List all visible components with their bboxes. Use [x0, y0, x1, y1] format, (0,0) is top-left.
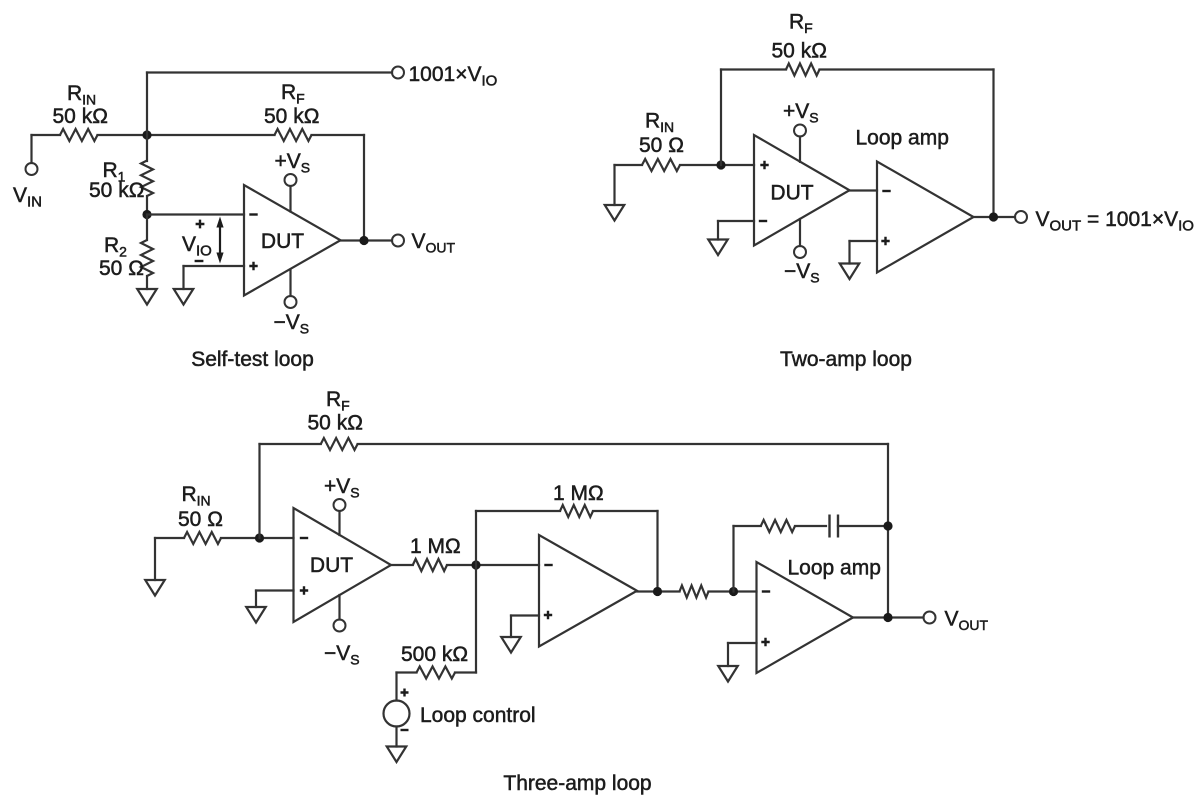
wire top rail to 1001xVIO terminal [147, 71, 392, 73]
resistor 1 MOhm feedback amp2 [560, 505, 593, 517]
svg-text:Three-amp loop: Three-amp loop [503, 772, 651, 795]
resistor R2 50 Ohm [141, 240, 153, 276]
svg-text:Two-amp loop: Two-amp loop [780, 348, 912, 371]
wire amp3 noninverting input [728, 642, 757, 644]
svg-text:DUT: DUT [261, 230, 304, 253]
wire RIN to RF through node [98, 134, 275, 136]
wire amp3 output [853, 616, 924, 618]
ground input three-amp [145, 580, 165, 596]
svg-text:DUT: DUT [310, 554, 353, 577]
wire node to R1 [146, 135, 148, 161]
resistor compensation amp3 [761, 520, 795, 532]
wire +VS stub [289, 186, 291, 212]
junction node amp2 output [653, 587, 662, 596]
wire to RIN three-amp [155, 537, 184, 539]
resistor R1 50 kOhm [141, 161, 153, 197]
wire source bottom lead [395, 727, 397, 747]
terminal -VS [285, 296, 297, 308]
wire capacitor to output node [838, 525, 888, 527]
terminal VIN [26, 163, 38, 175]
wire inverting to ground two-amp [717, 221, 719, 240]
wire resistor to capacitor [795, 525, 826, 527]
wire noninverting to ground three-amp [255, 591, 257, 608]
terminal VOUT two-amp [1015, 211, 1027, 223]
DUT noninverting sign three-amp [300, 586, 308, 594]
resistor RIN 50 Ohm three-amp [184, 532, 221, 544]
wire VIN vertical [30, 135, 32, 163]
wire DUT output three-amp [391, 564, 413, 566]
wire DUT noninverting input [184, 265, 245, 267]
svg-text:Self-test loop: Self-test loop [191, 348, 314, 371]
terminal +VS two-amp [794, 125, 806, 137]
wire ground to RIN three-amp [154, 538, 156, 580]
op-amp DUT self-test [244, 185, 341, 296]
DUT inverting sign two-amp [759, 220, 767, 222]
wire feedback left leg two-amp [720, 70, 722, 166]
amp2 inverting sign [544, 564, 552, 566]
junction node inverting input [142, 210, 151, 219]
wire R2 to ground [146, 276, 148, 289]
wire R1 to node [146, 196, 148, 215]
terminal VOUT three-amp [924, 612, 936, 624]
wire RIN to DUT inverting three-amp [221, 537, 294, 539]
minus sign VIO [195, 260, 204, 262]
wire amp2 input vertical [475, 511, 477, 673]
wire feedback top right two-amp [820, 68, 994, 70]
svg-text:50 kΩ: 50 kΩ [264, 105, 319, 128]
ground noninverting input [174, 289, 194, 305]
amp2 noninverting sign [544, 611, 552, 619]
resistor RF 50 kOhm three-amp [321, 438, 358, 450]
wire feedback left leg three-amp [258, 444, 260, 538]
op-amp A2 three-amp [539, 535, 637, 647]
wire feedback right leg two-amp [992, 70, 994, 218]
minus sign loop control [401, 729, 409, 731]
wire RF output leg vertical [363, 135, 365, 241]
op-amp DUT two-amp [754, 135, 850, 246]
loop amp noninverting sign [881, 237, 889, 245]
wire DUT inverting input two-amp [718, 220, 754, 222]
wire -VS stub [289, 270, 291, 297]
DUT noninverting input sign [249, 262, 257, 270]
svg-text:50 Ω: 50 Ω [99, 257, 144, 280]
resistor 500 kOhm [417, 667, 456, 679]
terminal 1001xVIO [392, 67, 404, 79]
wire feedback top right three-amp [358, 443, 888, 445]
wire to amp3 inverting input [709, 590, 757, 592]
VIO offset arrow [219, 226, 221, 254]
svg-text:Loop amp: Loop amp [788, 557, 881, 580]
wire +VS stub two-amp [799, 137, 801, 162]
junction node amp2 input [471, 560, 480, 569]
junction node feedback two-amp [716, 160, 725, 169]
op-amp A3 loop amp three-amp [757, 562, 854, 673]
wire 500 kOhm to source [397, 671, 417, 673]
wire noninverting to ground [182, 266, 184, 289]
wire node to R2 [146, 215, 148, 241]
junction node output two-amp [989, 212, 998, 221]
DUT noninverting sign two-amp [760, 161, 768, 169]
ground amp2 noninverting [501, 637, 521, 653]
ground loop amp noninverting [840, 264, 860, 280]
ground inverting input two-amp [708, 240, 728, 256]
wire vertical to 500 kOhm [455, 671, 476, 673]
amp3 inverting sign [762, 590, 770, 592]
resistor RIN 50 Ohm two-amp [642, 159, 680, 171]
wire feedback right leg three-amp [887, 444, 889, 618]
ground input two-amp [605, 205, 625, 221]
resistor 1 MOhm interstage [413, 559, 447, 571]
terminal +VS three-amp [334, 499, 346, 511]
junction node input [142, 130, 151, 139]
terminal VOUT self-test [392, 235, 404, 247]
wire 1 MOhm to amp2 [447, 564, 539, 566]
terminal -VS two-amp [794, 246, 806, 258]
ground below R2 [137, 289, 157, 305]
wire amp2 output [637, 590, 680, 592]
wire DUT noninverting input three-amp [256, 589, 294, 591]
wire DUT output to loop amp [850, 189, 878, 191]
wire amp2 noninverting to ground [510, 616, 512, 638]
ground loop control [387, 747, 407, 763]
wire RIN to DUT noninverting input [680, 164, 754, 166]
wire to compensation resistor [734, 525, 761, 527]
svg-text:DUT: DUT [770, 182, 813, 205]
svg-text:50 kΩ: 50 kΩ [772, 40, 827, 63]
op-amp DUT three-amp [294, 508, 392, 622]
wire +VS stub three-amp [338, 511, 340, 535]
svg-text:Loop amp: Loop amp [856, 127, 949, 150]
junction node feedback three-amp [255, 533, 264, 542]
DUT inverting input sign [249, 213, 257, 215]
ground amp3 noninverting [718, 666, 738, 682]
junction node VOUT three-amp [883, 613, 892, 622]
wire ground to RIN [613, 165, 615, 205]
wire to RIN [615, 164, 643, 166]
wire noninverting to ground loop amp [848, 241, 850, 264]
wire amp2 feedback left [476, 510, 560, 512]
junction node amp3 input [729, 587, 738, 596]
wire amp3 compensation up [732, 526, 734, 592]
wire to DUT inverting input [147, 213, 244, 215]
ground DUT noninverting three-amp [246, 607, 266, 623]
plus sign loop control [401, 689, 409, 697]
resistor interstage unlabeled [680, 586, 709, 598]
wire -VS stub two-amp [799, 219, 801, 246]
wire amp3 noninverting to ground [727, 643, 729, 666]
wire amp2 noninverting input [511, 614, 539, 616]
wire feedback top left three-amp [260, 443, 321, 445]
op-amp loop amp two-amp [877, 162, 974, 273]
svg-text:1 MΩ: 1 MΩ [410, 535, 461, 558]
resistor RF 50 kOhm [275, 129, 312, 141]
DUT inverting sign three-amp [300, 537, 308, 539]
amp3 noninverting sign [761, 638, 769, 646]
svg-text:50 kΩ: 50 kΩ [89, 179, 144, 202]
resistor RF 50 kOhm two-amp [786, 64, 819, 76]
junction node compensation [883, 521, 892, 530]
svg-text:50 Ω: 50 Ω [639, 134, 684, 157]
svg-text:Loop control: Loop control [420, 704, 536, 727]
wire amp2 feedback right [593, 510, 658, 512]
terminal +VS [285, 174, 297, 186]
source loop control [384, 701, 410, 727]
resistor RIN 50 kOhm [60, 129, 97, 141]
wire amp2 feedback down [656, 511, 658, 592]
plus sign VIO [196, 220, 205, 229]
svg-text:1 MΩ: 1 MΩ [553, 482, 604, 505]
terminal -VS three-amp [334, 620, 346, 632]
wire loop amp noninverting input [850, 240, 878, 242]
svg-text:500 kΩ: 500 kΩ [401, 643, 468, 666]
wire node to top rail [146, 73, 148, 136]
junction node output [359, 236, 368, 245]
wire source top lead [395, 673, 397, 701]
wire VIN to RIN [32, 134, 61, 136]
capacitor compensation amp3 [830, 515, 839, 538]
svg-text:50 kΩ: 50 kΩ [308, 412, 363, 435]
wire feedback top left two-amp [721, 68, 786, 70]
wire loop amp output [974, 216, 1016, 218]
svg-text:50 Ω: 50 Ω [178, 508, 223, 531]
wire -VS stub three-amp [338, 595, 340, 620]
svg-text:50 kΩ: 50 kΩ [53, 105, 108, 128]
wire DUT output [341, 239, 393, 241]
wire RF to output leg [312, 134, 365, 136]
loop amp inverting sign [882, 190, 890, 192]
